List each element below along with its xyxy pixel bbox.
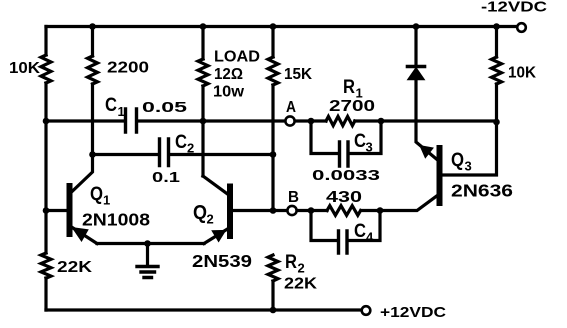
capacitor C2 (160, 139, 169, 166)
junction top rail / 15K branch (270, 23, 277, 30)
node A terminal (285, 116, 294, 125)
transistor Q1 bar (67, 186, 73, 234)
svg-text:12Ω: 12Ω (214, 66, 243, 83)
svg-text:B: B (288, 189, 299, 206)
svg-text:0.0033: 0.0033 (312, 167, 380, 184)
label R2 (285, 252, 305, 276)
wire node A row (46, 119, 311, 122)
svg-text:3: 3 (465, 159, 472, 174)
capacitor C4 (339, 231, 348, 253)
junction node A row / 10K right (493, 119, 500, 126)
svg-text:+12VDC: +12VDC (380, 304, 446, 321)
svg-text:LOAD: LOAD (214, 49, 260, 66)
svg-text:2N636: 2N636 (451, 181, 513, 201)
junction R1-C3 left (308, 118, 315, 125)
transistor Q2 bar (227, 187, 233, 237)
junction C2 row / 15K branch (270, 151, 277, 158)
junction emitter row / ground (144, 240, 151, 247)
wire R1 (311, 119, 497, 122)
wire top rail (46, 25, 517, 28)
wire 15K branch (271, 27, 274, 211)
junction left rail / Q1 base (43, 207, 50, 214)
label R1 (343, 77, 363, 101)
resistor LOAD (198, 59, 208, 86)
wire left rail (44, 27, 47, 311)
junction Q2 base / R2 branch (270, 207, 277, 214)
svg-text:C: C (354, 131, 366, 152)
junction top rail / 2200 branch (89, 23, 96, 30)
junction top rail / LOAD branch (200, 23, 207, 30)
transistor Q2 collector (203, 176, 228, 194)
ground stem (146, 244, 149, 267)
wire C3 loop (311, 121, 381, 154)
svg-text:A: A (286, 99, 296, 116)
svg-text:2: 2 (207, 212, 214, 227)
resistor 2200 (88, 56, 98, 84)
transistor Q1 emitter arrow (73, 228, 88, 241)
node B terminal (287, 206, 296, 215)
transistor Q1 base wire (46, 209, 67, 212)
wire 2200 branch (91, 27, 94, 155)
svg-text:2: 2 (187, 141, 194, 156)
label Q1 (90, 184, 110, 208)
capacitor C1 (126, 109, 137, 132)
svg-text:1: 1 (103, 193, 110, 208)
resistor 430 (327, 206, 361, 216)
svg-text:2N1008: 2N1008 (82, 210, 150, 230)
svg-text:Q: Q (451, 150, 464, 171)
junction 430-C4 left (308, 207, 315, 214)
svg-text:10K: 10K (9, 60, 40, 77)
label C4 (354, 221, 374, 245)
wire 10K right branch (442, 27, 497, 176)
ground bars (137, 267, 158, 278)
transistor Q1 collector (72, 155, 93, 193)
svg-text:22K: 22K (284, 276, 317, 293)
svg-text:C: C (354, 221, 366, 242)
diode CR1 (408, 65, 425, 69)
resistor 22K left (41, 253, 51, 278)
svg-text:4: 4 (366, 230, 374, 245)
junction top rail / diode branch (413, 23, 420, 30)
transistor Q2 base wire (233, 209, 274, 212)
capacitor C3 (340, 142, 349, 166)
label Q2 (193, 202, 214, 227)
terminal -12VDC (517, 23, 526, 32)
junction top rail / 10K right branch (493, 23, 500, 30)
resistor 10K right (492, 57, 502, 84)
transistor Q2 emitter (204, 229, 228, 244)
svg-text:10K: 10K (508, 65, 536, 82)
svg-text:2N539: 2N539 (192, 251, 252, 271)
svg-text:2: 2 (298, 261, 305, 276)
junction LOAD branch / node A row (200, 118, 207, 125)
resistor 10K left (41, 55, 51, 83)
svg-text:2700: 2700 (329, 98, 375, 115)
wire diode branch (416, 27, 437, 160)
svg-text:15K: 15K (284, 66, 312, 83)
transistor Q3 bar (437, 148, 443, 203)
junction left rail / node A row (43, 118, 50, 125)
wire R2 bottom (271, 281, 274, 310)
label C3 (354, 131, 373, 155)
junction R1-C3 right (378, 118, 385, 125)
svg-text:10w: 10w (213, 84, 245, 101)
svg-text:Q: Q (193, 202, 207, 224)
wire C2 row (93, 153, 274, 156)
svg-text:430: 430 (326, 189, 362, 206)
wire C4 loop (311, 211, 380, 241)
junction 430-C4 right (377, 207, 384, 214)
svg-text:R: R (285, 252, 297, 273)
svg-text:Q: Q (90, 184, 103, 205)
wire emitter row (97, 242, 204, 245)
label C2 (175, 132, 194, 156)
wire LOAD branch (201, 27, 204, 177)
terminal +12VDC (362, 306, 371, 315)
wire node B row (273, 209, 311, 212)
resistor 15K (268, 57, 278, 85)
svg-text:0.1: 0.1 (152, 169, 180, 186)
svg-text:2200: 2200 (107, 60, 149, 77)
svg-text:3: 3 (366, 140, 373, 155)
transistor Q2 emitter arrow (213, 231, 225, 241)
label C1 (105, 95, 125, 119)
junction Q1 collector / C2 row (89, 151, 96, 158)
label Q3 (451, 150, 472, 174)
wire bottom rail (46, 308, 361, 311)
svg-text:-12VDC: -12VDC (481, 0, 547, 16)
junction bottom rail / R2 branch (270, 307, 277, 314)
transistor Q3 emitter arrow (421, 146, 433, 157)
svg-text:0.05: 0.05 (142, 99, 187, 116)
svg-text:C: C (105, 95, 117, 116)
wire B to Q3 (380, 195, 438, 211)
svg-text:1: 1 (118, 104, 125, 119)
svg-text:C: C (175, 132, 187, 153)
transistor Q1 emitter (72, 227, 98, 244)
resistor R1 2700 (326, 116, 355, 125)
wire 430 (311, 209, 380, 212)
resistor R2 22K (268, 255, 278, 281)
svg-text:22K: 22K (57, 259, 93, 276)
diode triangle (408, 68, 424, 80)
svg-text:R: R (343, 77, 355, 98)
